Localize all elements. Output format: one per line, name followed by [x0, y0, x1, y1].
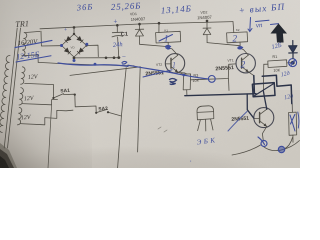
winding W2 12V — [21, 67, 25, 84]
traced box scribble — [252, 83, 275, 97]
node C1 bottom — [117, 56, 120, 59]
transistor VT1 (Q2) circle — [236, 54, 255, 73]
blue stroke over 2N5551 — [143, 70, 172, 77]
wire R1 left lead down — [262, 64, 264, 91]
blue circled junction R3 node — [208, 76, 215, 83]
wire W1 top branch down to bridge AC left — [41, 31, 60, 46]
node K1 rail — [158, 22, 161, 25]
paper background — [0, 0, 300, 168]
paper grain — [0, 0, 300, 168]
transistor VT2 (Q1) circle — [165, 54, 184, 73]
traced ground wire from R3 — [185, 94, 256, 96]
transistor Q3 circle — [254, 108, 274, 128]
left side shading — [0, 0, 90, 168]
vertical wire V1 down from block — [118, 68, 127, 168]
wire W1 top tap to + rail start — [24, 31, 40, 32]
bottom-left page shadow — [0, 95, 92, 168]
blue long curve from minus rail to R3 node — [128, 65, 208, 79]
wire SA2 out — [108, 112, 121, 116]
bridge diodes (filled) — [64, 36, 83, 54]
winding W1 16-20V — [22, 33, 27, 56]
wire K2 bottom lead — [239, 42, 241, 48]
bridge diode top-left — [65, 36, 71, 42]
faint pen ticks center bottom — [158, 127, 167, 132]
node mid rail b — [113, 56, 116, 59]
wire K1 bottom lead — [167, 42, 169, 48]
transformer primary winding — [0, 55, 10, 132]
blue scribble below Q3 emitter — [258, 137, 265, 145]
traced wire Q3 collector up — [263, 91, 266, 109]
blue circle at R1 right (LED) — [289, 59, 297, 67]
dark page corner bottom-left — [0, 143, 17, 168]
wire rail to K1 — [158, 23, 160, 32]
steps SA1 to SA2 — [64, 94, 97, 112]
traced step to right — [262, 75, 292, 103]
bottom-right wires to terminals — [264, 141, 300, 151]
relay K1 box — [156, 31, 181, 43]
node bridge vertices — [73, 33, 75, 35]
relay K2 box — [227, 32, 248, 43]
node mid rail a — [105, 57, 108, 60]
blue terminal blob right — [278, 146, 284, 152]
blue underline 12-15V — [16, 56, 51, 62]
blue scribble at K1 bottom node — [166, 46, 171, 49]
node VD2 top — [206, 20, 209, 23]
blue scribble at Q1 emitter — [170, 79, 177, 85]
bridge rectifier diamond — [62, 34, 87, 57]
printed text labels — [15, 10, 281, 122]
blue scribble on minus line — [122, 61, 127, 64]
top-left corner shade — [0, 0, 160, 48]
traced wire Q2 emitter down — [253, 76, 256, 94]
wire bridge AC right vertex down — [87, 45, 99, 56]
winding W4 12V — [17, 107, 21, 124]
node SA1 poles — [52, 97, 54, 99]
wire W1 bottom tap — [22, 55, 38, 63]
node C1 top — [116, 24, 119, 27]
minus line from bridge bottom — [74, 57, 120, 59]
resistor R1 — [268, 60, 287, 68]
resistor right edge — [289, 112, 297, 135]
traced wire Q3 base feed — [247, 94, 254, 118]
node VD1 top — [138, 23, 141, 26]
bottom soft shadow — [0, 146, 280, 210]
wire VD1 to K1/collector node — [140, 44, 168, 46]
resistor R3 — [183, 74, 190, 90]
blue junction dots — [60, 43, 242, 77]
wire bridge bottom vertex to minus line — [73, 57, 75, 58]
blue marks on right-edge resistor — [290, 115, 295, 132]
dark traced pen wires (right middle) — [185, 41, 297, 119]
+ top rail — [40, 22, 233, 29]
vertical wire V2 down from block — [138, 67, 141, 152]
blue diagonal in K1 box — [159, 35, 173, 42]
wire Q2 base down — [228, 79, 231, 91]
diode VD3 right edge (bold) — [292, 41, 294, 46]
bottom rail (minus) — [38, 62, 134, 65]
blue curve lower right toward Q3 base — [228, 112, 247, 132]
wire bridge top vertex to rail — [73, 27, 75, 34]
tap staircase W4 — [20, 110, 73, 125]
wire R3 node to Q2 base — [191, 64, 236, 80]
node bridge bottom — [73, 57, 76, 60]
wire rail into relay K2 — [232, 22, 235, 33]
TO-92 package drawing — [197, 106, 214, 120]
wire Q3 emitter down — [262, 126, 266, 140]
node bridge+rail — [73, 26, 76, 29]
wire Q1 collector to K1 node — [168, 48, 178, 56]
blue terminal circle below Q3 — [261, 141, 267, 147]
bridge diode bottom-right — [77, 48, 83, 54]
emitter arrows — [175, 69, 178, 72]
switch SA2 arm — [96, 109, 107, 112]
blue wavy over bottom rail — [58, 63, 128, 66]
wire Q2 collector to K2 node — [240, 48, 248, 55]
diode VD2 — [206, 21, 208, 28]
blue strikethrough 16-20V — [15, 40, 52, 47]
transformer TR1 core — [4, 28, 17, 148]
blue hook and overline of vn annotation — [248, 18, 252, 32]
wire Q2 emitter down — [249, 72, 254, 76]
black handwritten arrow top right — [271, 24, 288, 43]
bridge diode top-right — [77, 36, 83, 42]
tap staircase W3 — [22, 99, 58, 104]
wire Q1 emitter down — [178, 72, 184, 74]
wire VD2 to K2/collector node — [207, 43, 240, 46]
capacitor C1 — [116, 25, 118, 32]
tap staircase W2 to SA1 — [25, 83, 54, 98]
diode VD1 — [139, 24, 141, 29]
bridge diode bottom-left — [64, 48, 70, 54]
switch block outline top edge — [70, 67, 140, 76]
switch SA1 arm — [53, 94, 63, 98]
winding W3 12V — [19, 88, 23, 105]
wire tap W3 down to bottom edge — [48, 105, 52, 168]
blue scribble at K2 bottom node — [238, 47, 243, 49]
